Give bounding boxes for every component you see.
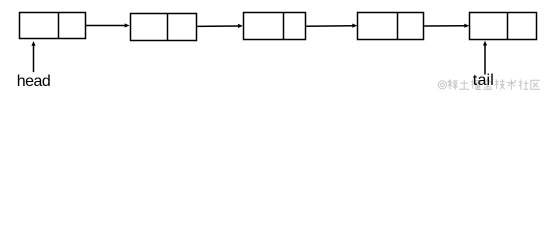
稀 bbox=[447, 80, 457, 90]
wire arrow node2 to node3 bbox=[197, 24, 243, 28]
术 bbox=[507, 80, 516, 90]
社 bbox=[519, 80, 529, 90]
svg-text:tail: tail bbox=[473, 72, 494, 89]
node 3 box bbox=[244, 13, 306, 40]
wire arrow node3 to node4 bbox=[306, 24, 357, 28]
head pointer arrow bbox=[31, 41, 35, 72]
node 2 box bbox=[131, 14, 197, 41]
watermark "@稀土掘金技术社区" drawn as vectors bbox=[438, 80, 540, 90]
技 bbox=[495, 80, 505, 90]
svg-text:head: head bbox=[17, 73, 50, 90]
tail pointer arrow bbox=[483, 41, 487, 75]
wire arrow node4 to node5 bbox=[424, 24, 469, 28]
node 5 box bbox=[470, 13, 537, 40]
wire arrow node1 to node2 bbox=[86, 23, 130, 27]
金 bbox=[483, 80, 492, 90]
区 bbox=[531, 80, 540, 89]
node 4 box bbox=[358, 13, 424, 40]
土 bbox=[459, 80, 469, 89]
掘 bbox=[471, 80, 481, 90]
@ bbox=[438, 81, 446, 89]
node 1 box bbox=[20, 13, 86, 39]
